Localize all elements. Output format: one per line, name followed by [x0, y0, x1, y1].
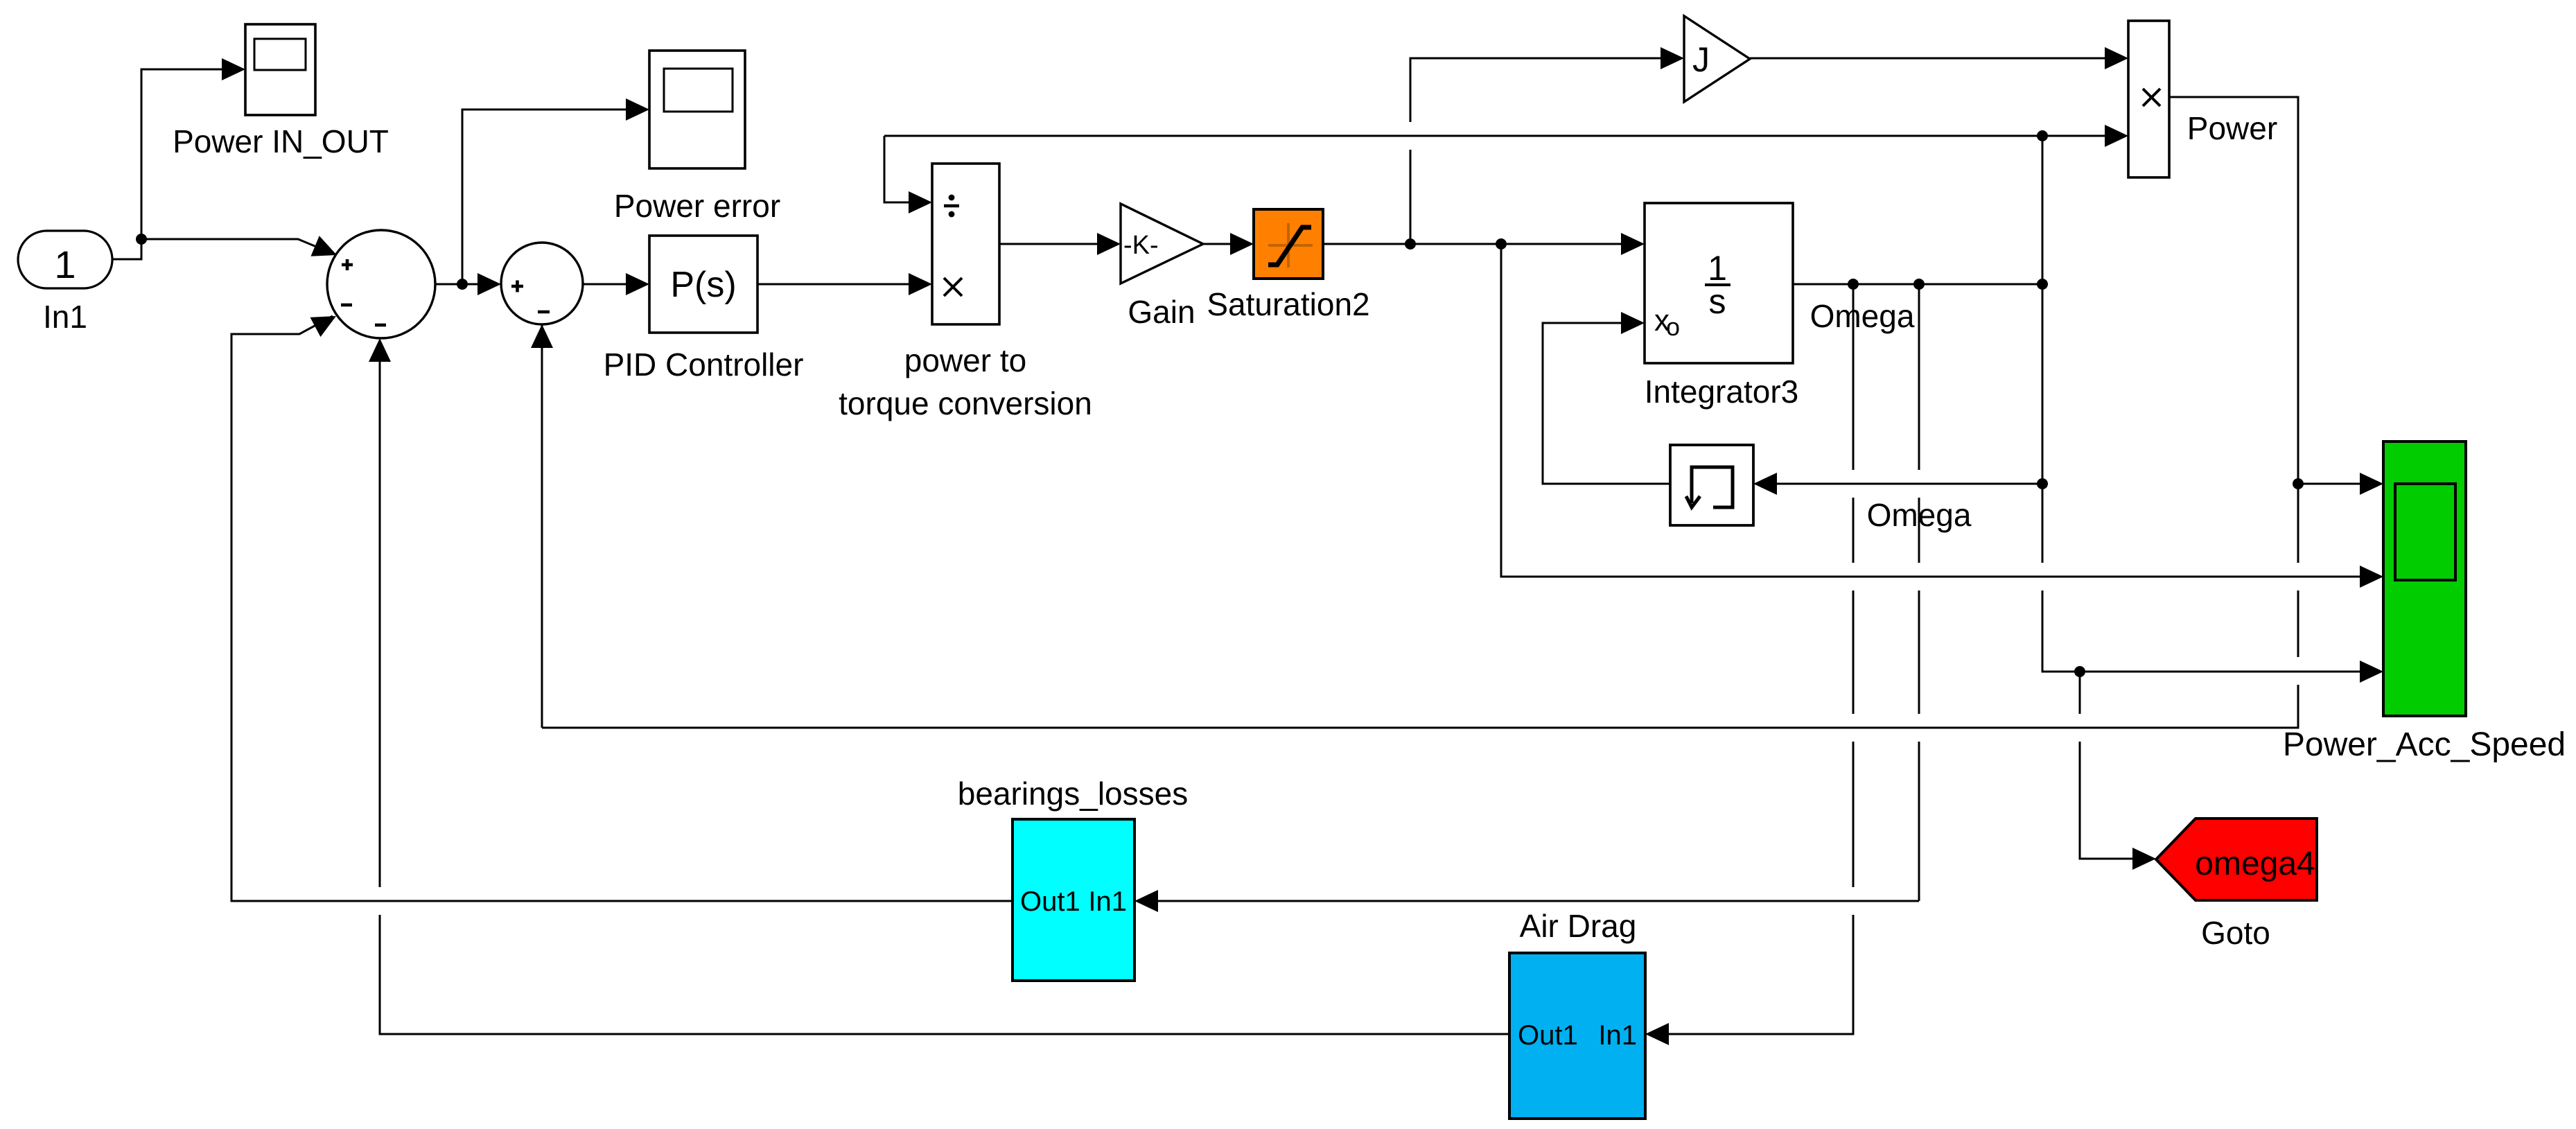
svg-text:Power error: Power error: [614, 188, 780, 224]
svg-text:Omega: Omega: [1810, 298, 1915, 334]
svg-text:Omega: Omega: [1867, 497, 1972, 533]
svg-text:Integrator3: Integrator3: [1645, 374, 1798, 410]
svg-text:Out1: Out1: [1020, 886, 1080, 917]
svg-text:PID Controller: PID Controller: [604, 347, 804, 383]
svg-text:In1: In1: [1598, 1020, 1637, 1051]
svg-text:Saturation2: Saturation2: [1207, 286, 1369, 322]
svg-text:s: s: [1709, 282, 1726, 321]
svg-text:Power_Acc_Speed: Power_Acc_Speed: [2283, 726, 2566, 763]
svg-text:1: 1: [54, 243, 76, 286]
svg-text:o: o: [1666, 313, 1680, 341]
svg-text:bearings_losses: bearings_losses: [958, 776, 1188, 812]
svg-text:J: J: [1692, 40, 1710, 79]
svg-text:Power: Power: [2187, 110, 2277, 146]
svg-text:Out1: Out1: [1518, 1020, 1578, 1051]
svg-text:P(s): P(s): [670, 265, 736, 305]
svg-text:Power IN_OUT: Power IN_OUT: [173, 123, 389, 159]
svg-text:torque conversion: torque conversion: [839, 385, 1092, 421]
svg-text:power to: power to: [904, 342, 1026, 378]
svg-text:In1: In1: [1088, 886, 1127, 917]
svg-text:In1: In1: [43, 299, 87, 335]
svg-text:Goto: Goto: [2201, 915, 2270, 951]
svg-text:omega4: omega4: [2195, 846, 2315, 882]
svg-text:Gain: Gain: [1128, 294, 1195, 330]
svg-text:-K-: -K-: [1123, 231, 1159, 260]
svg-text:Air Drag: Air Drag: [1520, 908, 1637, 944]
